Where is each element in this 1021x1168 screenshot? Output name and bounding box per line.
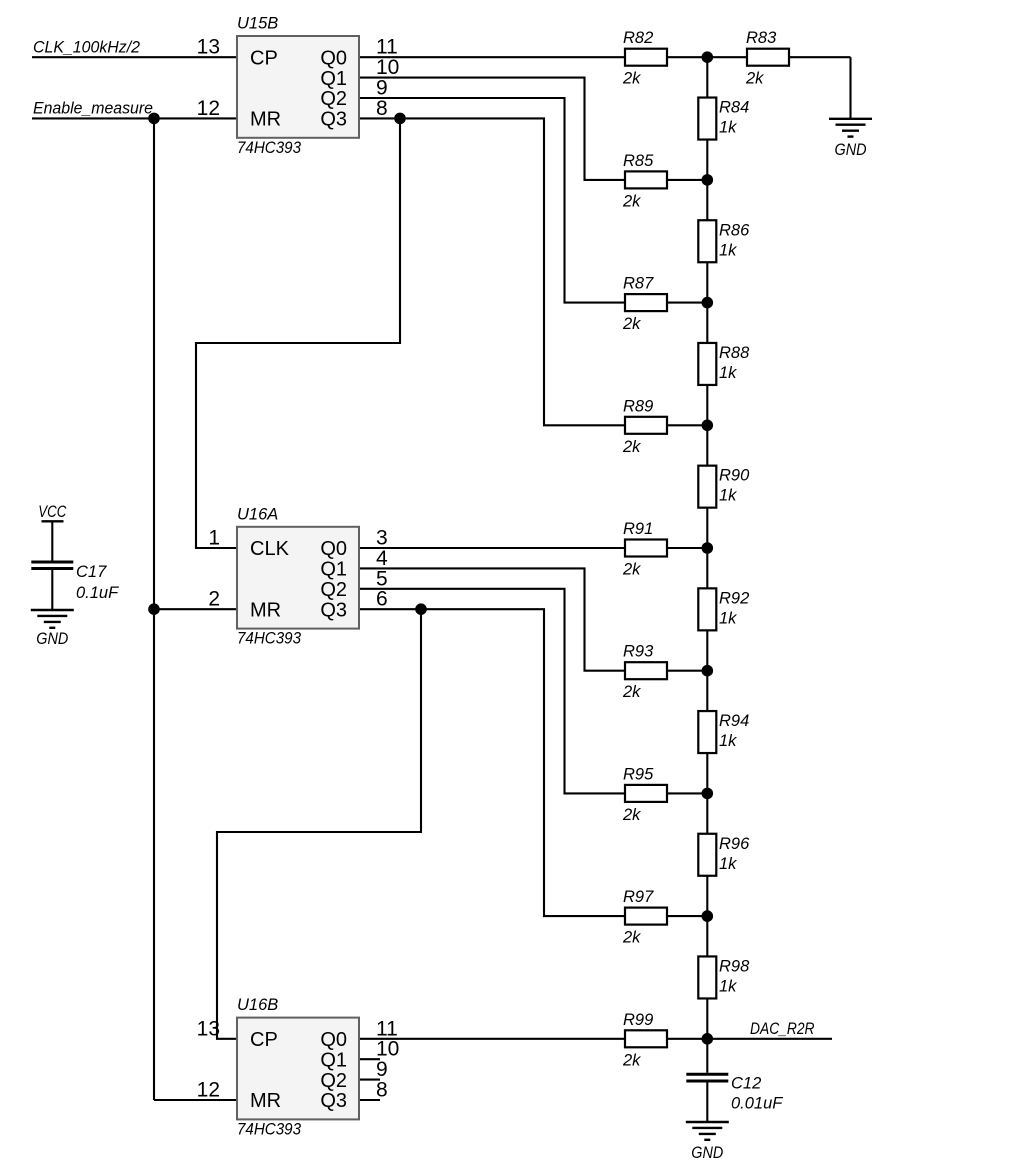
wire R89 to ladder node xyxy=(667,424,707,426)
svg-text:CP: CP xyxy=(250,1029,278,1051)
wire U16A Q1 to R93 xyxy=(359,568,625,670)
wire U16B Q0 to R99 and DAC node xyxy=(359,1038,707,1040)
junction Enable rail at U16A MR xyxy=(148,603,160,615)
svg-text:Q3: Q3 xyxy=(320,599,347,621)
svg-text:MR: MR xyxy=(250,109,281,131)
junction ladder node row 6 xyxy=(702,788,714,800)
svg-text:1k: 1k xyxy=(719,977,737,995)
svg-text:Q0: Q0 xyxy=(320,538,347,560)
junction ladder node row 8 xyxy=(702,1033,714,1045)
svg-text:R98: R98 xyxy=(719,957,750,975)
junction ladder node row 4 xyxy=(702,542,714,554)
wire U15B Q0 to R82 and ladder node xyxy=(359,56,707,58)
svg-text:74HC393: 74HC393 xyxy=(237,1120,302,1138)
svg-text:GND: GND xyxy=(835,140,867,159)
junction ladder node row 1 xyxy=(702,174,714,186)
resistor R87 2k xyxy=(625,294,667,311)
svg-text:1k: 1k xyxy=(719,364,737,382)
wire C17 to GND xyxy=(51,570,53,610)
wire U15B Q2 to R87 xyxy=(359,98,625,303)
svg-text:13: 13 xyxy=(197,1017,220,1040)
resistor R91 2k xyxy=(625,540,667,557)
svg-text:Q1: Q1 xyxy=(320,68,347,90)
svg-text:2k: 2k xyxy=(622,192,641,210)
svg-text:R85: R85 xyxy=(623,152,654,170)
svg-text:R93: R93 xyxy=(623,643,654,661)
svg-text:C17: C17 xyxy=(76,563,107,581)
svg-text:R84: R84 xyxy=(719,99,749,117)
wire U16B Q2 stub pin 9 xyxy=(359,1079,380,1081)
wire ladder vertical rail xyxy=(706,57,708,1073)
junction ladder node row 3 xyxy=(702,420,714,432)
svg-text:2k: 2k xyxy=(622,438,641,456)
svg-text:2k: 2k xyxy=(622,929,641,947)
svg-text:8: 8 xyxy=(376,97,388,120)
resistor R99 2k xyxy=(625,1030,667,1047)
capacitor C12 0.01uF xyxy=(686,1073,728,1076)
wire Enable rail to U16B pin 12 xyxy=(154,1099,237,1101)
wire VCC to C17 xyxy=(51,521,53,560)
junction Enable_measure at U15B xyxy=(148,113,160,125)
svg-text:U16A: U16A xyxy=(237,505,278,523)
svg-text:MR: MR xyxy=(250,1090,281,1112)
wire U15B Q3 cascade to U16A CLK pin 1 xyxy=(196,118,400,548)
svg-text:R86: R86 xyxy=(719,221,750,239)
wire C12 to GND xyxy=(706,1083,708,1123)
junction ladder node row 7 xyxy=(702,910,714,922)
svg-text:12: 12 xyxy=(197,97,220,120)
svg-text:U15B: U15B xyxy=(237,15,278,33)
ground symbol top right (R83) xyxy=(829,119,872,137)
junction U16A Q3 node xyxy=(415,603,427,615)
wire R83 down to GND xyxy=(849,57,851,119)
counter U16B 74HC393 xyxy=(237,1018,359,1120)
wire U16A Q3 cascade to U16B CP pin 13 xyxy=(217,609,421,1039)
junction U15B Q3 node xyxy=(394,113,406,125)
svg-text:0.01uF: 0.01uF xyxy=(731,1095,783,1113)
resistor R95 2k xyxy=(625,785,667,802)
ground symbol below C17 xyxy=(31,610,74,628)
svg-text:R90: R90 xyxy=(719,467,750,485)
junction ladder node row 5 xyxy=(702,665,714,677)
resistor R92 1k xyxy=(698,588,716,630)
svg-text:2k: 2k xyxy=(622,1051,641,1069)
svg-text:2k: 2k xyxy=(622,315,641,333)
svg-text:1k: 1k xyxy=(719,487,737,505)
svg-text:1k: 1k xyxy=(719,855,737,873)
svg-text:Q1: Q1 xyxy=(320,1049,347,1071)
wire U15B Q1 to R85 xyxy=(359,78,625,180)
wire U16B Q1 stub pin 10 xyxy=(359,1058,380,1060)
resistor R84 1k xyxy=(698,98,716,140)
svg-text:CP: CP xyxy=(250,47,278,69)
wire R97 to ladder node xyxy=(667,915,707,917)
wire ladder node to R83 xyxy=(707,56,850,58)
wire U16A Q2 to R95 xyxy=(359,589,625,794)
svg-text:2k: 2k xyxy=(622,561,641,579)
svg-text:1k: 1k xyxy=(719,241,737,259)
svg-text:Q2: Q2 xyxy=(320,579,347,601)
svg-text:Q0: Q0 xyxy=(320,1029,347,1051)
svg-text:Enable_measure: Enable_measure xyxy=(33,99,153,118)
wire U15B Q3 to R89 xyxy=(359,118,625,425)
resistor R83 2k xyxy=(747,49,789,66)
svg-text:VCC: VCC xyxy=(38,502,67,521)
resistor R85 2k xyxy=(625,171,667,188)
capacitor C17 0.1uF xyxy=(31,561,73,564)
svg-text:R94: R94 xyxy=(719,712,749,730)
wire R95 to ladder node xyxy=(667,792,707,794)
wire Enable rail to U16A pin 2 xyxy=(154,608,237,610)
svg-text:R83: R83 xyxy=(746,29,777,47)
svg-text:R89: R89 xyxy=(623,397,653,415)
svg-text:74HC393: 74HC393 xyxy=(237,630,302,648)
svg-text:8: 8 xyxy=(376,1079,388,1102)
svg-text:MR: MR xyxy=(250,599,281,621)
svg-text:6: 6 xyxy=(376,588,388,611)
resistor R97 2k xyxy=(625,908,667,925)
svg-text:Q2: Q2 xyxy=(320,88,347,110)
svg-text:CLK_100kHz/2: CLK_100kHz/2 xyxy=(33,38,141,57)
resistor R82 2k xyxy=(625,49,667,66)
resistor R90 1k xyxy=(698,466,716,508)
svg-text:R96: R96 xyxy=(719,835,750,853)
resistor R88 1k xyxy=(698,343,716,385)
svg-text:1k: 1k xyxy=(719,609,737,627)
svg-text:R95: R95 xyxy=(623,765,654,783)
svg-text:13: 13 xyxy=(197,36,220,59)
svg-text:2k: 2k xyxy=(622,683,641,701)
svg-text:Q2: Q2 xyxy=(320,1070,347,1092)
resistor R98 1k xyxy=(698,956,716,998)
wire net Enable_measure to U15B pin 12 xyxy=(32,117,237,119)
resistor R94 1k xyxy=(698,711,716,753)
svg-text:1: 1 xyxy=(208,527,220,550)
ground symbol below C12 xyxy=(686,1122,729,1140)
svg-text:R99: R99 xyxy=(623,1011,653,1029)
wire R87 to ladder node xyxy=(667,302,707,304)
svg-text:2: 2 xyxy=(208,588,220,611)
svg-text:Q3: Q3 xyxy=(320,1090,347,1112)
svg-text:Q1: Q1 xyxy=(320,559,347,581)
svg-text:DAC_R2R: DAC_R2R xyxy=(750,1019,815,1038)
svg-text:R97: R97 xyxy=(623,888,654,906)
svg-text:2k: 2k xyxy=(745,70,764,88)
wire net CLK_100kHz/2 to U15B pin 13 xyxy=(32,56,237,58)
svg-text:12: 12 xyxy=(197,1079,220,1102)
svg-text:Q0: Q0 xyxy=(320,47,347,69)
resistor R96 1k xyxy=(698,834,716,876)
svg-text:GND: GND xyxy=(36,629,68,648)
wire U16A Q3 to R97 xyxy=(359,609,625,916)
wire U16A Q0 to R91 and ladder node xyxy=(359,547,707,549)
resistor R89 2k xyxy=(625,417,667,434)
svg-text:R82: R82 xyxy=(623,29,653,47)
counter U15B 74HC393 xyxy=(237,36,359,138)
svg-text:R92: R92 xyxy=(719,589,749,607)
svg-text:2k: 2k xyxy=(622,806,641,824)
svg-text:C12: C12 xyxy=(731,1075,761,1093)
resistor R93 2k xyxy=(625,662,667,679)
svg-text:CLK: CLK xyxy=(250,538,290,560)
wire U16B Q3 stub pin 8 xyxy=(359,1099,380,1101)
svg-text:R91: R91 xyxy=(623,520,653,538)
svg-text:2k: 2k xyxy=(622,70,641,88)
svg-text:0.1uF: 0.1uF xyxy=(76,584,119,602)
resistor R86 1k xyxy=(698,220,716,262)
wire R85 to ladder node xyxy=(667,179,707,181)
wire net DAC_R2R xyxy=(707,1038,832,1040)
svg-text:R88: R88 xyxy=(719,344,750,362)
junction ladder node row 2 xyxy=(702,297,714,309)
svg-text:1k: 1k xyxy=(719,732,737,750)
svg-text:1k: 1k xyxy=(719,119,737,137)
svg-text:74HC393: 74HC393 xyxy=(237,139,302,157)
counter U16A 74HC393 xyxy=(237,527,359,629)
svg-text:R87: R87 xyxy=(623,275,654,293)
wire Enable_measure vertical rail xyxy=(153,118,155,1100)
wire R93 to ladder node xyxy=(667,670,707,672)
junction ladder node row 0 xyxy=(702,51,714,63)
svg-text:U16B: U16B xyxy=(237,996,278,1014)
svg-text:Q3: Q3 xyxy=(320,109,347,131)
svg-text:GND: GND xyxy=(691,1143,723,1162)
